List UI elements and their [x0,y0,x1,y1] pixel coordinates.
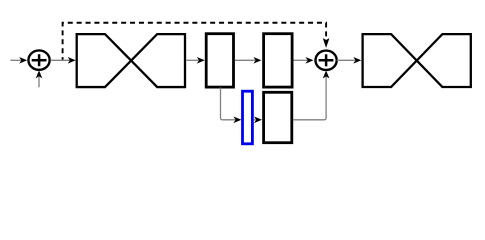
block R3 tall rectangle [264,92,292,142]
wire B1 to R1 [186,58,204,63]
wire R1 to R2 [235,58,261,63]
block D1 thin blue rectangle [243,91,253,144]
wire S2 to B2 [337,58,361,63]
wire bottom input to S1 [36,71,41,87]
wire input arrow [10,58,26,63]
block B2 bowtie [363,34,471,87]
block R1 tall rectangle [206,34,233,87]
wire D1 to R3 [254,117,261,122]
summing junction S2 [316,51,337,70]
wire S1 to B1 [50,58,75,63]
wire R3 to S2 bottom [293,71,329,120]
block R2 tall rectangle [264,34,293,87]
wire R1 bottom to D1 [221,88,241,123]
summing junction S1 [28,50,49,69]
block B1 bowtie [77,34,185,87]
wire R2 to S2 [294,58,313,63]
wire feedback dashed [63,23,329,60]
